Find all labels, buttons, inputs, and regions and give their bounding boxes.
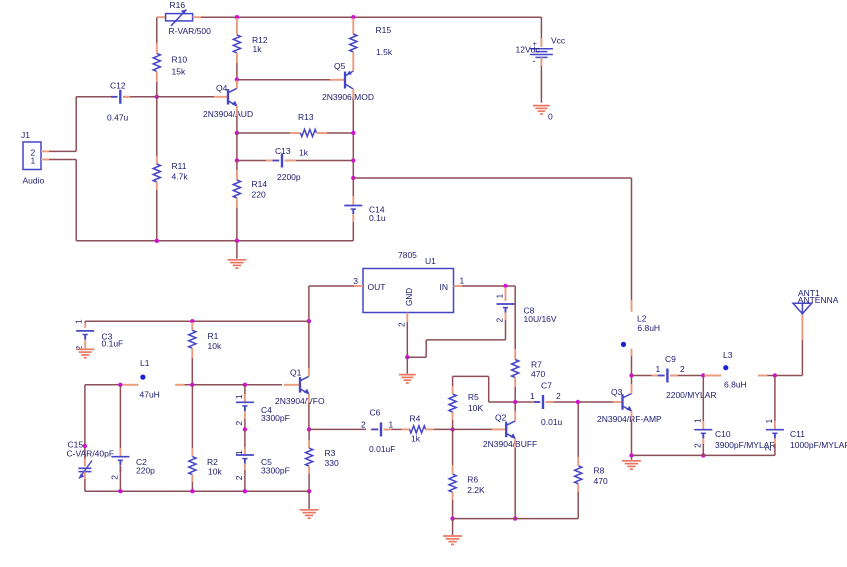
wire to Q2 base: [454, 428, 506, 430]
svg-text:2: 2: [396, 322, 406, 327]
svg-text:-: -: [533, 56, 536, 66]
resistor R5: [449, 376, 514, 428]
inductor L2: [621, 300, 660, 356]
ground audio section: [227, 242, 246, 269]
wire buffer ground rail: [454, 518, 579, 520]
wire to antenna: [776, 314, 803, 376]
resistor R3: [306, 430, 339, 490]
wire RF feed line: [354, 178, 631, 300]
svg-text:R16: R16: [170, 0, 186, 10]
wire VFO bottom rail: [85, 490, 309, 492]
ground below Q3: [622, 456, 641, 469]
junction Q4 collector: [235, 77, 239, 81]
svg-text:C-VAR/40pF: C-VAR/40pF: [67, 449, 115, 459]
junction R8 top: [576, 400, 580, 404]
svg-text:2: 2: [109, 475, 119, 480]
resistor R13: [238, 112, 353, 158]
svg-text:J1: J1: [21, 130, 30, 140]
svg-text:R13: R13: [298, 112, 314, 122]
svg-text:3300pF: 3300pF: [261, 466, 290, 476]
svg-text:220p: 220p: [136, 466, 155, 476]
svg-text:OUT: OUT: [368, 282, 386, 292]
svg-text:0: 0: [548, 112, 553, 122]
junction R2 bottom: [190, 489, 194, 493]
svg-text:R1: R1: [208, 331, 219, 341]
resistor R7: [512, 349, 546, 401]
capacitor C13: [238, 146, 353, 182]
resistor R1: [189, 322, 222, 384]
capacitor C4: [234, 386, 290, 429]
node base-Q4 junction: [155, 95, 159, 99]
svg-text:2200p: 2200p: [277, 172, 301, 182]
connector J1: [21, 130, 45, 186]
junction R13 left: [235, 131, 239, 135]
transistor Q4: [203, 83, 253, 119]
svg-text:1k: 1k: [411, 434, 421, 444]
junction C10 top: [701, 373, 705, 377]
ground below R3: [300, 492, 319, 518]
svg-text:2200/MYLAR: 2200/MYLAR: [666, 390, 717, 400]
capacitor C2: [109, 386, 155, 491]
junction C2 bottom: [118, 489, 122, 493]
capacitor C3: [73, 319, 123, 351]
svg-text:7805: 7805: [398, 250, 417, 260]
wire Q4 base: [158, 96, 228, 98]
svg-text:1: 1: [692, 418, 702, 423]
capacitor C5: [234, 430, 290, 490]
wire Q4 collector stub: [236, 81, 238, 89]
resistor R15: [350, 18, 393, 66]
wire Q5 emitter to R15: [352, 66, 354, 71]
capacitor C11: [763, 376, 847, 455]
wire audio ground rail: [76, 240, 353, 242]
svg-text:12Vdc: 12Vdc: [516, 44, 541, 54]
svg-text:C13: C13: [275, 146, 291, 156]
junction R15 top: [351, 15, 355, 19]
junction C4 top: [243, 383, 247, 387]
wire U1 IN pin 1: [454, 276, 516, 350]
resistor R11: [153, 98, 188, 240]
svg-text:1: 1: [460, 276, 465, 286]
transistor Q1: [275, 368, 325, 407]
wire U1 OUT pin 3: [309, 276, 363, 320]
svg-text:Q2: Q2: [495, 413, 507, 423]
svg-text:IN: IN: [440, 282, 449, 292]
capacitor C14: [344, 179, 386, 241]
svg-text:1000pF/MYLAR: 1000pF/MYLAR: [790, 440, 847, 450]
svg-text:330: 330: [325, 458, 339, 468]
svg-text:R11: R11: [172, 161, 187, 171]
junction Q3 emitter bottom: [629, 453, 633, 457]
wire J1 pin1 to ground rail: [41, 160, 76, 241]
ground below R6: [443, 520, 462, 545]
svg-text:L2: L2: [637, 314, 647, 324]
svg-text:6.8uH: 6.8uH: [637, 323, 660, 333]
junction C4 bottom: [243, 427, 247, 431]
junction Q1 emitter node: [307, 427, 311, 431]
svg-text:1: 1: [495, 294, 505, 299]
junction C5 bottom: [243, 489, 247, 493]
resistor R10: [153, 17, 187, 96]
transistor Q3: [597, 387, 662, 424]
ground 0 at battery: [533, 106, 553, 122]
capacitor C8 electrolytic: [408, 287, 557, 357]
wire tank rail to Q1 base: [185, 384, 300, 386]
junction R1 top: [190, 319, 194, 323]
svg-text:470: 470: [594, 476, 608, 486]
svg-text:1: 1: [764, 419, 774, 424]
svg-text:15k: 15k: [172, 67, 186, 77]
svg-text:1: 1: [656, 364, 661, 374]
svg-text:2N3904/VFO: 2N3904/VFO: [275, 396, 325, 406]
svg-text:C6: C6: [370, 408, 381, 418]
junction OUT feed: [307, 319, 311, 323]
svg-text:1: 1: [234, 394, 244, 399]
antenna ANT1: [793, 288, 839, 314]
junction R7 bottom C7 node: [513, 400, 517, 404]
svg-text:R7: R7: [531, 360, 542, 370]
svg-text:U1: U1: [425, 256, 436, 266]
svg-text:2N3904/RF-AMP: 2N3904/RF-AMP: [597, 414, 662, 424]
svg-text:2: 2: [234, 475, 244, 480]
svg-text:R3: R3: [325, 448, 336, 458]
svg-text:L1: L1: [140, 358, 150, 368]
wire Q1 collector: [308, 322, 310, 377]
svg-text:R2: R2: [207, 457, 218, 467]
svg-text:L3: L3: [723, 350, 733, 360]
junction C2 top: [118, 383, 122, 387]
wire top supply rail: [201, 16, 541, 18]
inductor L1: [123, 358, 185, 400]
capacitor C9: [632, 354, 716, 400]
svg-text:R-VAR/500: R-VAR/500: [169, 26, 212, 36]
junction R11 bottom: [155, 239, 159, 243]
svg-text:R6: R6: [467, 475, 478, 485]
svg-text:C9: C9: [665, 354, 676, 364]
capacitor C12: [76, 81, 156, 123]
svg-text:0.47u: 0.47u: [107, 113, 129, 123]
svg-text:10K: 10K: [468, 403, 483, 413]
svg-text:3: 3: [353, 276, 358, 286]
svg-text:470: 470: [531, 369, 545, 379]
junction C13 right: [351, 158, 355, 162]
wire Q2 emitter: [514, 438, 516, 517]
svg-text:Q3: Q3: [611, 387, 623, 397]
svg-text:1k: 1k: [253, 44, 263, 54]
junction C10 bottom: [701, 453, 705, 457]
svg-text:0.1u: 0.1u: [369, 213, 386, 223]
svg-text:6.8uH: 6.8uH: [724, 380, 747, 390]
junction R1 bottom: [190, 383, 194, 387]
svg-text:1: 1: [31, 155, 36, 165]
wire Q4 emitter down: [236, 106, 238, 132]
wire Q3 emitter: [631, 411, 633, 455]
resistor R8: [575, 403, 608, 519]
svg-text:2N3906/MOD: 2N3906/MOD: [322, 92, 374, 102]
resistor R4: [392, 414, 452, 444]
junction R3 bottom: [307, 489, 311, 493]
svg-text:10U/16V: 10U/16V: [524, 314, 557, 324]
svg-text:3300pF: 3300pF: [261, 413, 290, 423]
svg-text:0.1uF: 0.1uF: [102, 339, 124, 349]
svg-text:10k: 10k: [208, 467, 222, 477]
svg-text:C7: C7: [541, 381, 552, 391]
svg-text:47uH: 47uH: [140, 390, 160, 400]
svg-text:1k: 1k: [299, 148, 309, 158]
capacitor C6: [310, 408, 395, 455]
wire VFO supply rail: [85, 320, 309, 322]
svg-text:R4: R4: [410, 414, 421, 424]
junction R13 right: [351, 131, 355, 135]
junction Q2 emitter bottom: [513, 516, 517, 520]
svg-text:1.5k: 1.5k: [376, 47, 393, 57]
svg-text:2.2K: 2.2K: [467, 485, 485, 495]
wire VFO tank rail: [85, 385, 123, 386]
svg-text:Audio: Audio: [23, 176, 45, 186]
transistor Q5: [322, 61, 374, 102]
wire Q5 collector down: [352, 89, 354, 132]
resistor R12: [233, 18, 268, 79]
svg-text:4.7k: 4.7k: [172, 172, 189, 182]
inductor L3: [704, 350, 774, 390]
junction C8 tap: [503, 284, 507, 288]
junction U1 ground: [405, 355, 409, 359]
svg-text:Q5: Q5: [334, 61, 346, 71]
svg-text:ANTENNA: ANTENNA: [798, 295, 839, 305]
wire to Q3 base: [579, 401, 622, 403]
svg-text:R10: R10: [172, 55, 188, 65]
svg-text:R15: R15: [376, 25, 392, 35]
svg-text:2N3904/AUD: 2N3904/AUD: [203, 109, 253, 119]
junction C11 top: [773, 373, 777, 377]
wire collector net segment: [236, 134, 238, 160]
capacitor C15 variable: [67, 386, 115, 491]
wire U1 GND pin 2: [396, 313, 407, 357]
wire L2 bottom to collector: [631, 356, 633, 375]
resistor R6: [449, 430, 485, 517]
ground at C3: [76, 349, 94, 357]
ground at U1: [399, 358, 416, 383]
svg-text:2: 2: [680, 364, 685, 374]
junction Q2 base node: [450, 427, 454, 431]
junction to RF line: [351, 176, 355, 180]
svg-text:1: 1: [389, 420, 394, 430]
svg-text:Q4: Q4: [216, 83, 228, 93]
junction R12 top: [235, 15, 239, 19]
svg-text:0.01uF: 0.01uF: [369, 444, 395, 454]
svg-text:C10: C10: [715, 429, 731, 439]
resistor R16 variable: [157, 0, 211, 36]
svg-text:GND: GND: [405, 288, 414, 306]
svg-text:Vcc: Vcc: [551, 36, 566, 46]
svg-text:C11: C11: [790, 429, 805, 439]
svg-text:2: 2: [763, 446, 773, 451]
wire Q3 collector: [631, 376, 633, 393]
battery V1 12Vdc: [516, 17, 566, 103]
svg-text:220: 220: [252, 190, 266, 200]
wire Q2 collector: [514, 403, 516, 421]
svg-text:10k: 10k: [208, 341, 222, 351]
svg-text:2N3904/BUFF: 2N3904/BUFF: [483, 439, 537, 449]
svg-text:0.01u: 0.01u: [541, 417, 563, 427]
IC U1 7805: [363, 250, 454, 312]
svg-text:C12: C12: [110, 81, 126, 91]
svg-text:2: 2: [556, 391, 561, 401]
junction R6 bottom: [450, 516, 454, 520]
wire Q5 collector net: [352, 134, 354, 177]
junction ground stem: [235, 239, 239, 243]
wire RF ground rail: [632, 454, 775, 456]
capacitor C10: [692, 376, 775, 454]
svg-text:Q1: Q1: [290, 368, 302, 378]
svg-text:R8: R8: [594, 466, 605, 476]
wire J1 pin2 to C12 net: [41, 97, 76, 152]
resistor R2: [189, 386, 223, 491]
svg-text:2: 2: [234, 421, 244, 426]
svg-text:2: 2: [495, 318, 505, 323]
svg-text:1: 1: [530, 391, 535, 401]
svg-text:R5: R5: [468, 392, 479, 402]
wire Q1 emitter: [308, 394, 310, 429]
svg-text:1: 1: [73, 319, 83, 324]
wire Q4 collector to Q5 base: [238, 79, 344, 81]
capacitor C7: [516, 381, 577, 428]
resistor R14: [233, 161, 267, 240]
transistor Q2: [483, 413, 537, 450]
svg-text:R14: R14: [252, 179, 268, 189]
svg-text:2: 2: [361, 420, 366, 430]
junction C13 left: [235, 158, 239, 162]
junction Q3 collector node: [629, 373, 633, 377]
svg-text:2: 2: [692, 443, 702, 448]
